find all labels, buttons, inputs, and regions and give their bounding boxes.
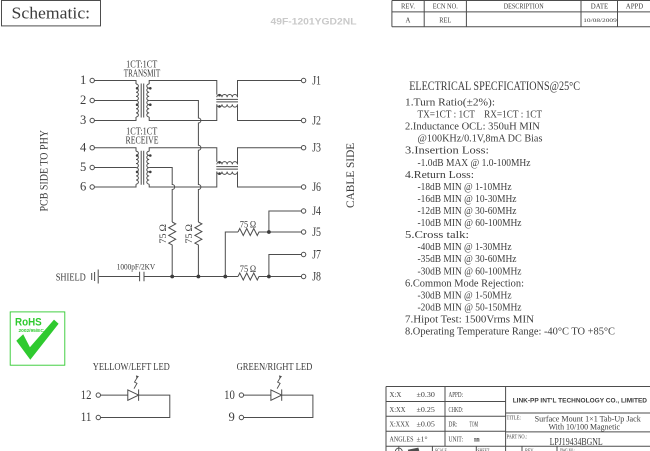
svg-text:A: A xyxy=(406,17,411,24)
pin labels J1-J8 xyxy=(312,73,321,283)
resistor R2 75ohm vertical xyxy=(195,222,202,277)
svg-text:49F-1201YGD2NL: 49F-1201YGD2NL xyxy=(271,17,358,27)
choke L1 core xyxy=(216,99,238,102)
svg-text:REL: REL xyxy=(439,17,451,24)
pin 4 terminal xyxy=(90,146,94,150)
resistor R1 75ohm vertical xyxy=(169,222,176,277)
svg-text:-30dB MIN @ 1-50MHz: -30dB MIN @ 1-50MHz xyxy=(418,289,512,301)
svg-text:REV.: REV. xyxy=(401,4,415,11)
wire pin6 to T2 primary bottom xyxy=(94,184,136,187)
shield bus wire with capacitor xyxy=(99,276,238,278)
choke L1 phase dot lower xyxy=(218,105,221,108)
REV table frame xyxy=(392,1,650,27)
svg-text:DATE: DATE xyxy=(591,4,609,11)
wire pin1 to T1 primary top xyxy=(94,81,136,85)
resistor value label R2 xyxy=(184,224,195,244)
capacitor value label xyxy=(117,261,156,271)
svg-text:TX=1CT : 1CT RX=1CT : 1CT: TX=1CT : 1CT RX=1CT : 1CT xyxy=(418,109,543,121)
svg-text:RoHS: RoHS xyxy=(15,317,42,329)
svg-text:8.Operating Temperature Range:: 8.Operating Temperature Range: -40°C TO … xyxy=(405,326,615,338)
choke L2 core xyxy=(216,167,238,170)
svg-text:10/08/2009: 10/08/2009 xyxy=(583,18,617,24)
LED D1 triangle xyxy=(128,390,139,400)
wire pin4 to T2 primary top xyxy=(94,148,136,152)
LED D1 arrow xyxy=(134,375,139,388)
projection symbol xyxy=(395,446,419,451)
transformer T1 primary phase dot upper xyxy=(136,87,139,90)
resistor R3 75ohm horizontal xyxy=(238,229,301,236)
REV table header text xyxy=(401,4,643,11)
svg-text:REV.: REV. xyxy=(525,448,534,451)
svg-text:75 Ω: 75 Ω xyxy=(240,264,256,275)
wire T1 secondary top to choke L1 xyxy=(149,81,217,95)
svg-text:ANGLES: ANGLES xyxy=(390,436,414,444)
shield terminal bars xyxy=(92,270,99,284)
svg-text:CABLE SIDE: CABLE SIDE xyxy=(345,143,357,208)
svg-text:2002/95/EC: 2002/95/EC xyxy=(19,328,45,334)
transformer T1 primary winding xyxy=(136,84,138,117)
svg-text:6: 6 xyxy=(80,180,86,194)
svg-text:LINK-PP INT'L TECHNOLOGY CO.,: LINK-PP INT'L TECHNOLOGY CO., LIMITED xyxy=(513,397,648,404)
wire T1 secondary bottom to choke L1 xyxy=(149,104,217,120)
left side label PCB SIDE TO PHY xyxy=(39,129,51,211)
transformer T2 secondary phase dot upper xyxy=(149,154,152,157)
svg-text:PCB SIDE TO PHY: PCB SIDE TO PHY xyxy=(39,129,51,211)
pin 11 terminal xyxy=(96,415,100,419)
svg-text:X:XX: X:XX xyxy=(390,406,406,414)
LED D2 arrow xyxy=(277,375,282,388)
company name xyxy=(513,397,648,404)
RoHS logo text xyxy=(15,317,44,334)
resistor value label R3 xyxy=(240,219,256,230)
svg-text:UNIT:: UNIT: xyxy=(449,436,464,444)
LED D2 cathode bar xyxy=(281,389,283,400)
svg-text:YELLOW/LEFT LED: YELLOW/LEFT LED xyxy=(93,362,170,373)
resistor value label R1 xyxy=(158,224,169,244)
svg-text:J5: J5 xyxy=(312,225,321,239)
svg-text:@100KHz/0.1V,8mA DC Bias: @100KHz/0.1V,8mA DC Bias xyxy=(418,133,543,145)
bottom row labels xyxy=(435,448,575,451)
svg-text:-10dB MIN @ 60-100MHz: -10dB MIN @ 60-100MHz xyxy=(418,217,522,229)
svg-text:-20dB MIN @ 50-150MHz: -20dB MIN @ 50-150MHz xyxy=(418,301,522,313)
svg-text:3: 3 xyxy=(80,113,86,127)
svg-text:6.Common Mode Rejection:: 6.Common Mode Rejection: xyxy=(405,277,524,289)
transformer T1 core xyxy=(141,84,144,118)
wire choke L2 top to J3 xyxy=(238,148,302,165)
svg-text:11: 11 xyxy=(81,410,92,424)
svg-text:12: 12 xyxy=(81,388,92,402)
wire pin2 to T1 primary center tap xyxy=(94,100,136,102)
transformer T1 label xyxy=(124,59,161,79)
resistor R4 75ohm horizontal on bus xyxy=(238,273,301,280)
svg-text:75 Ω: 75 Ω xyxy=(158,224,169,244)
transformer T2 primary phase dot lower xyxy=(136,171,139,174)
svg-text:±1°: ±1° xyxy=(417,436,428,444)
transformer T1 secondary phase dot lower xyxy=(149,103,152,106)
junction R2 to shield bus xyxy=(197,275,201,279)
svg-text:±0.05: ±0.05 xyxy=(417,421,436,429)
node J1 terminal xyxy=(301,78,305,82)
svg-text:SCALE: SCALE xyxy=(435,448,447,451)
LED D2 green circuit wires xyxy=(244,395,313,417)
svg-text:75 Ω: 75 Ω xyxy=(240,219,256,230)
pin 12 terminal xyxy=(96,393,100,397)
LED D1 cathode bar xyxy=(138,389,140,400)
tolerance column text xyxy=(390,391,436,444)
svg-text:J8: J8 xyxy=(312,269,321,283)
REV table row A xyxy=(406,17,618,24)
choke L1 bottom winding xyxy=(217,104,238,107)
svg-text:TRANSMIT: TRANSMIT xyxy=(124,69,161,80)
title block frame xyxy=(386,387,650,451)
svg-text:RECEIVE: RECEIVE xyxy=(126,136,159,147)
node J6 terminal xyxy=(301,185,305,189)
RoHS logo box xyxy=(10,312,65,365)
svg-text:CHKD:: CHKD: xyxy=(449,406,464,414)
label YELLOW/LEFT LED xyxy=(93,362,170,373)
label SHIELD xyxy=(56,272,86,284)
svg-text:J1: J1 xyxy=(312,73,321,87)
svg-text:±0.25: ±0.25 xyxy=(417,406,436,414)
part number field xyxy=(507,435,603,449)
wire T2 secondary center tap down to R1 with hop xyxy=(149,168,175,223)
svg-text:DESCRIPTION: DESCRIPTION xyxy=(504,4,544,11)
node J5 terminal xyxy=(301,230,305,234)
node J7 terminal xyxy=(301,252,305,256)
svg-text:1000pF/2KV: 1000pF/2KV xyxy=(117,261,156,271)
watermark part number 49F-1201YGD2NL xyxy=(271,17,358,27)
svg-text:J2: J2 xyxy=(312,113,321,127)
svg-text:5: 5 xyxy=(80,160,86,174)
wire choke L1 bottom to J2 xyxy=(238,104,302,120)
wire bus to R3 xyxy=(225,232,238,277)
svg-text:7.Hipot Test: 1500Vrms MIN: 7.Hipot Test: 1500Vrms MIN xyxy=(405,314,534,326)
svg-text:APPD:: APPD: xyxy=(449,391,464,399)
svg-text:2.Inductance OCL: 350uH MIN: 2.Inductance OCL: 350uH MIN xyxy=(405,121,540,133)
svg-text:J3: J3 xyxy=(312,141,321,155)
svg-text:X:XXX: X:XXX xyxy=(390,421,410,429)
svg-text:APPD: APPD xyxy=(626,4,644,11)
transformer T1 secondary phase dot upper xyxy=(149,87,152,90)
label Schematic: xyxy=(12,3,91,22)
svg-text:-18dB MIN @ 1-10MHz: -18dB MIN @ 1-10MHz xyxy=(418,181,512,193)
svg-text:mm: mm xyxy=(474,436,480,444)
svg-text:75 Ω: 75 Ω xyxy=(184,224,195,244)
pin 3 terminal xyxy=(90,118,94,122)
node J4 terminal xyxy=(301,209,305,213)
svg-text:SHIELD: SHIELD xyxy=(56,272,86,284)
resistor value label R4 xyxy=(240,264,256,275)
svg-text:-1.0dB MAX @ 1.0-100MHz: -1.0dB MAX @ 1.0-100MHz xyxy=(418,157,531,169)
pin 6 terminal xyxy=(90,185,94,189)
svg-text:-16dB MIN @ 10-30MHz: -16dB MIN @ 10-30MHz xyxy=(418,193,517,205)
transformer T2 label xyxy=(126,126,159,146)
LED D1 yellow circuit wires xyxy=(101,395,170,417)
pin 5 terminal xyxy=(90,165,94,169)
wire pin5 to T2 primary center tap xyxy=(94,167,136,169)
title field xyxy=(507,414,642,432)
node J8 terminal xyxy=(301,274,305,278)
svg-text:J6: J6 xyxy=(312,180,321,194)
transformer T2 primary winding xyxy=(136,151,138,184)
transformer T2 secondary phase dot lower xyxy=(149,171,152,174)
svg-text:GREEN/RIGHT LED: GREEN/RIGHT LED xyxy=(237,362,313,373)
svg-text:ELECTRICAL SPECFICATIONS@25°C: ELECTRICAL SPECFICATIONS@25°C xyxy=(409,78,580,93)
choke L2 phase dot lower xyxy=(218,172,221,175)
svg-text:1: 1 xyxy=(80,73,86,87)
choke L2 phase dot upper xyxy=(218,161,221,164)
svg-text:9: 9 xyxy=(229,410,235,424)
junction dot J5 node xyxy=(267,230,271,234)
junction R3 branch to shield bus xyxy=(223,275,227,279)
svg-text:DWG NO.:: DWG NO.: xyxy=(560,448,575,451)
pin 10 terminal xyxy=(239,393,243,397)
wire T2 secondary bottom to choke L2 xyxy=(149,172,217,187)
transformer T2 core xyxy=(141,151,144,185)
svg-text:5.Cross talk:: 5.Cross talk: xyxy=(405,229,469,241)
svg-text:10: 10 xyxy=(224,388,235,402)
wire choke L1 top to J1 xyxy=(238,81,302,98)
right side label CABLE SIDE xyxy=(345,143,357,208)
approval column text xyxy=(449,391,480,444)
svg-text:SHEET: SHEET xyxy=(478,448,490,451)
wire choke L2 bottom to J6 xyxy=(238,172,302,187)
svg-text:-40dB MIN @ 1-30MHz: -40dB MIN @ 1-30MHz xyxy=(418,241,512,253)
electrical specifications heading xyxy=(409,78,580,93)
node J3 terminal xyxy=(301,146,305,150)
svg-text:-35dB MIN @ 30-60MHz: -35dB MIN @ 30-60MHz xyxy=(418,253,517,265)
svg-text:LPJ19434BGNL: LPJ19434BGNL xyxy=(550,437,603,448)
choke L2 bottom winding xyxy=(217,172,238,175)
svg-text:PART NO.:: PART NO.: xyxy=(507,435,528,441)
svg-text:3.Insertion Loss:: 3.Insertion Loss: xyxy=(405,145,489,157)
wire T2 secondary top to choke L2 xyxy=(149,148,217,162)
choke L1 top winding xyxy=(217,94,238,97)
pin labels 1-6 xyxy=(80,73,87,194)
junction R1 to shield bus xyxy=(170,275,174,279)
svg-text:1.Turn Ratio(±2%):: 1.Turn Ratio(±2%): xyxy=(405,97,495,109)
wire T1 secondary center tap down to R2 with hops xyxy=(149,101,201,223)
wire pin3 to T1 primary bottom xyxy=(94,117,136,121)
choke L1 phase dot upper xyxy=(218,94,221,97)
transformer T1 secondary winding xyxy=(147,84,149,117)
electrical specifications list xyxy=(405,97,615,338)
LED D2 triangle xyxy=(271,390,282,400)
svg-text:With 10/100 Magnetic: With 10/100 Magnetic xyxy=(549,422,621,432)
svg-text:2: 2 xyxy=(80,93,86,107)
pin 1 terminal xyxy=(90,78,94,82)
svg-text:DR:: DR: xyxy=(449,421,458,429)
schematic title box xyxy=(2,1,101,26)
transformer T1 primary phase dot lower xyxy=(136,103,139,106)
wire junction to J7 xyxy=(269,255,302,277)
svg-text:J4: J4 xyxy=(312,204,321,218)
RoHS checkmark xyxy=(16,320,58,360)
transformer T2 primary phase dot upper xyxy=(136,154,139,157)
svg-text:4: 4 xyxy=(80,140,87,154)
capacitor C1 plates xyxy=(140,272,144,281)
choke L2 top winding xyxy=(217,162,238,165)
svg-text:TOM: TOM xyxy=(470,421,479,429)
junction J7 branch to shield bus xyxy=(267,275,271,279)
pin 2 terminal xyxy=(90,98,94,102)
svg-text:J7: J7 xyxy=(312,247,321,261)
svg-text:Schematic:: Schematic: xyxy=(12,3,91,22)
svg-text:-12dB MIN @ 30-60MHz: -12dB MIN @ 30-60MHz xyxy=(418,205,517,217)
wire junction to J4 xyxy=(269,211,302,232)
svg-text:X:X: X:X xyxy=(390,391,402,399)
transformer T2 secondary winding xyxy=(147,151,149,184)
svg-text:4.Return Loss:: 4.Return Loss: xyxy=(405,169,474,181)
svg-text:ECN NO.: ECN NO. xyxy=(433,4,458,11)
label GREEN/RIGHT LED xyxy=(237,362,313,373)
pin 9 terminal xyxy=(239,415,243,419)
svg-text:-30dB MIN @ 60-100MHz: -30dB MIN @ 60-100MHz xyxy=(418,265,522,277)
node J2 terminal xyxy=(301,118,305,122)
svg-text:TITLE:: TITLE: xyxy=(507,415,522,421)
svg-text:±0.30: ±0.30 xyxy=(417,391,436,399)
